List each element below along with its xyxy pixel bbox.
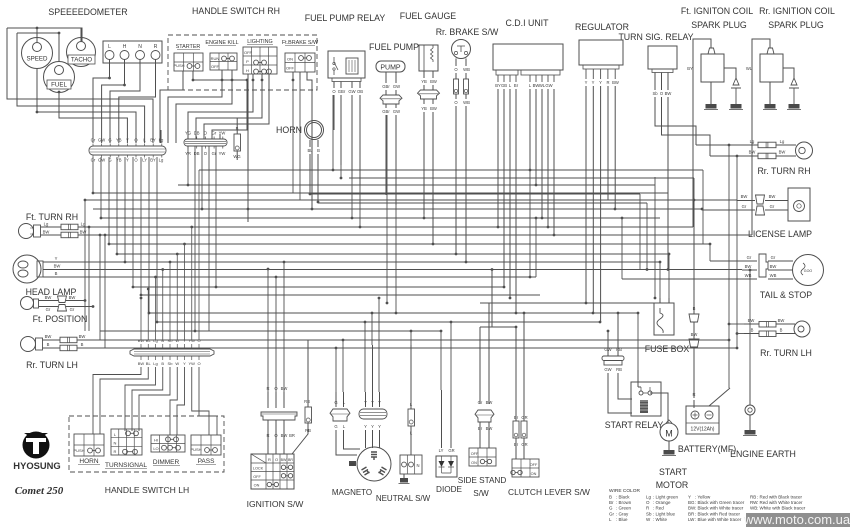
svg-text:B: B (161, 361, 164, 366)
svg-text:FUEL PUMP RELAY: FUEL PUMP RELAY (305, 13, 386, 23)
svg-text:: Yellow: : Yellow (695, 495, 711, 500)
svg-text:Y: Y (585, 80, 588, 85)
svg-text:BW: BW (769, 194, 776, 199)
svg-text:Br: Br (609, 500, 614, 505)
svg-text:N: N (114, 441, 117, 446)
svg-text:C.D.I UNIT: C.D.I UNIT (505, 18, 549, 28)
neutral switch (376, 345, 431, 503)
svg-text:YB: YB (421, 106, 427, 111)
svg-text:GB: GB (501, 83, 507, 88)
side stand switch (458, 303, 507, 498)
svg-text:R: R (266, 433, 269, 438)
svg-text:Gr: Gr (478, 400, 483, 405)
svg-text:BW: BW (430, 79, 437, 84)
svg-text:SPARK PLUG: SPARK PLUG (768, 20, 824, 30)
svg-text:FUEL GAUGE: FUEL GAUGE (400, 11, 457, 21)
svg-text:HI: HI (154, 438, 158, 443)
svg-text:YW: YW (219, 151, 226, 156)
svg-text:DIMMER: DIMMER (153, 459, 180, 466)
svg-text:B: B (751, 328, 754, 333)
svg-text:LOCK: LOCK (253, 467, 264, 471)
svg-text:Y: Y (378, 400, 381, 405)
svg-text:G: G (609, 506, 613, 511)
svg-text:PUSH: PUSH (190, 447, 201, 452)
svg-text:RB: RB (616, 367, 622, 372)
svg-text:SPEEEEDOMETER: SPEEEEDOMETER (48, 7, 127, 17)
svg-text:S/W: S/W (473, 489, 489, 498)
svg-text:START RELAY: START RELAY (605, 420, 664, 430)
svg-text:R: R (114, 449, 117, 454)
svg-text:MOTOR: MOTOR (656, 480, 689, 490)
svg-text:: Black: : Black (616, 495, 630, 500)
svg-text:Y: Y (183, 361, 186, 366)
svg-text:12V(12Ah): 12V(12Ah) (691, 427, 715, 433)
svg-text:OFF: OFF (211, 64, 220, 69)
engine earth (730, 370, 796, 459)
svg-text:Y: Y (688, 495, 691, 500)
connector ignition switch harness (261, 386, 297, 454)
connector inline B near fuse (689, 200, 699, 408)
ground engine earth (745, 430, 756, 435)
switch block STARTER (173, 44, 203, 71)
svg-text:GW: GW (98, 138, 105, 143)
wire mesh left verticals (85, 146, 216, 348)
ground start motor (664, 450, 675, 455)
lamp head lamp (13, 255, 77, 297)
svg-text:PASS: PASS (198, 458, 216, 465)
svg-text:LO: LO (153, 446, 158, 451)
svg-text:ON: ON (531, 472, 537, 476)
svg-text:BW: BW (430, 106, 437, 111)
svg-text:: Black with Red tracer: : Black with Red tracer (695, 511, 741, 516)
svg-text:BR: BR (288, 458, 293, 462)
diode block (436, 390, 463, 494)
svg-text:N: N (416, 463, 419, 468)
svg-text:O: O (646, 500, 650, 505)
svg-text:BW: BW (741, 194, 748, 199)
svg-text:Gr: Gr (747, 255, 752, 260)
svg-text:WB: WB (463, 100, 470, 105)
gauge SPEED (22, 38, 53, 69)
connector 9-pin main harness (89, 138, 166, 163)
svg-text:TURNSIGNAL: TURNSIGNAL (105, 462, 147, 469)
svg-text:Y: Y (126, 158, 129, 163)
svg-text:Comet 250: Comet 250 (15, 485, 64, 497)
svg-text:Gr: Gr (91, 138, 96, 143)
start motor (660, 420, 678, 450)
svg-text:BW: BW (54, 264, 61, 269)
svg-text:: Brown: : Brown (616, 500, 632, 505)
svg-text:LICENSE LAMP: LICENSE LAMP (748, 229, 812, 239)
svg-text:GW: GW (604, 367, 611, 372)
svg-text:W: W (175, 361, 179, 366)
svg-text:Y: Y (364, 400, 367, 405)
svg-text:SPEED: SPEED (27, 56, 49, 63)
switch block DIMMER (151, 435, 185, 466)
switch block PASS (190, 435, 221, 465)
svg-text:L: L (108, 44, 111, 50)
svg-text:BW: BW (612, 80, 619, 85)
svg-text:CLUTCH LEVER S/W: CLUTCH LEVER S/W (508, 487, 590, 497)
svg-text:Gr: Gr (742, 204, 747, 209)
svg-text:HORN: HORN (79, 458, 98, 465)
svg-text:Gr: Gr (609, 511, 615, 516)
relay K1 fuel pump relay (328, 51, 365, 185)
svg-text:ENGINE KILL: ENGINE KILL (205, 40, 238, 46)
svg-text:ON: ON (471, 461, 477, 465)
wire handle switch RH outputs (160, 70, 312, 222)
switch block TURNSIGNAL (105, 429, 147, 469)
svg-text:GBr: GBr (382, 84, 390, 89)
svg-text:R: R (268, 457, 271, 462)
switch block HORN (LH) (73, 434, 104, 465)
svg-text:Br: Br (514, 415, 519, 420)
svg-text:Gr: Gr (70, 307, 75, 312)
svg-text:WB: WB (463, 67, 470, 72)
svg-text:Lg: Lg (780, 139, 785, 144)
svg-text:B: B (693, 306, 696, 311)
svg-text:BW: BW (779, 150, 786, 155)
svg-text:B: B (81, 342, 84, 347)
wire junction dots (84, 144, 752, 350)
svg-text:YW: YW (189, 361, 196, 366)
svg-text:HANDLE SWITCH RH: HANDLE SWITCH RH (192, 6, 280, 16)
wire mesh horizontal bus (43, 145, 752, 348)
connector inline RB (292, 340, 312, 454)
ignition coil Rr (746, 39, 799, 235)
wire speedometer harness top (7, 27, 82, 62)
svg-text:Y: Y (378, 424, 381, 429)
connector magneto Y (359, 345, 387, 448)
svg-text:BR: BR (289, 433, 295, 438)
svg-text:GW: GW (393, 84, 400, 89)
svg-text:: White: : White (653, 517, 668, 522)
svg-text:FUEL PUMP: FUEL PUMP (369, 42, 419, 52)
svg-text:Lg: Lg (44, 222, 49, 227)
connector main 9-pin (130, 338, 214, 366)
svg-text:B: B (609, 495, 612, 500)
svg-text:Sb: Sb (652, 91, 658, 96)
svg-text:B: B (317, 148, 320, 153)
svg-text:STARTER: STARTER (176, 44, 201, 50)
svg-text:GW: GW (545, 83, 552, 88)
logo HYOSUNG (13, 432, 63, 498)
svg-text:START: START (659, 467, 688, 477)
svg-text:BW: BW (486, 400, 493, 405)
svg-text:BATTERY(MF): BATTERY(MF) (678, 444, 736, 454)
svg-text:BW: BW (778, 318, 785, 323)
gauge TACHO (67, 38, 96, 67)
svg-text:BW: BW (138, 361, 145, 366)
svg-text:: Light green: : Light green (653, 495, 679, 500)
svg-text:Rr. TURN LH: Rr. TURN LH (760, 348, 812, 358)
svg-text:ON: ON (254, 484, 260, 488)
svg-text:: White with Black tracer: : White with Black tracer (757, 506, 806, 511)
svg-text:Y: Y (126, 138, 129, 143)
svg-text:Lg: Lg (159, 158, 164, 163)
svg-text:BW: BW (281, 458, 287, 462)
svg-text:Rr. IGNITION COIL: Rr. IGNITION COIL (759, 6, 835, 16)
svg-text:DB: DB (194, 131, 200, 136)
svg-text:LIGHTING: LIGHTING (247, 39, 272, 45)
svg-text:: Red with White tracer: : Red with White tracer (757, 500, 803, 505)
svg-text:N: N (138, 44, 142, 50)
svg-text:HYOSUNG: HYOSUNG (13, 460, 60, 471)
svg-text:YB: YB (116, 138, 122, 143)
svg-text:BW: BW (45, 334, 52, 339)
connector magneto G/L (330, 392, 360, 455)
horn (276, 121, 323, 203)
svg-text:DIODE: DIODE (436, 485, 462, 494)
svg-text:LY: LY (439, 448, 444, 453)
fuse box (645, 298, 690, 354)
svg-text:OFF: OFF (471, 452, 479, 456)
svg-text:WIRE COLOR: WIRE COLOR (609, 488, 640, 494)
svg-text:Gr: Gr (46, 307, 51, 312)
watermark moto.com.ua (743, 512, 850, 527)
svg-text:Y: Y (599, 80, 602, 85)
svg-text:BW: BW (691, 332, 698, 337)
svg-text:BW: BW (745, 264, 752, 269)
svg-text:O: O (275, 457, 278, 462)
clutch lever switch (508, 313, 590, 497)
svg-text:G: G (334, 400, 337, 405)
CDI unit (493, 44, 563, 313)
svg-text:RB: RB (304, 399, 310, 404)
svg-text:FUEL: FUEL (51, 82, 67, 89)
start relay (605, 370, 668, 430)
svg-text:BW: BW (69, 295, 76, 300)
switch block ENGINE KILL (205, 40, 238, 70)
wire mesh bottom feeders (268, 262, 750, 392)
wire mesh right verticals (530, 145, 737, 388)
svg-text:: Black with White tracer: : Black with White tracer (695, 506, 744, 511)
connector 5-pin harness (184, 131, 227, 157)
svg-text:MAGNETO: MAGNETO (332, 488, 372, 497)
svg-text:WB: WB (770, 273, 777, 278)
svg-text:PUMP: PUMP (380, 65, 401, 72)
svg-text:Ft. POSITION: Ft. POSITION (33, 314, 88, 324)
svg-text:BY: BY (687, 66, 693, 71)
svg-text:BW: BW (45, 295, 52, 300)
svg-text:RUN: RUN (211, 56, 220, 61)
ignition switch table (247, 454, 305, 509)
svg-text:Y: Y (364, 424, 367, 429)
svg-text:Br: Br (514, 83, 519, 88)
svg-text:BW: BW (749, 150, 756, 155)
svg-text:R: R (606, 80, 609, 85)
svg-text:BW: BW (770, 264, 777, 269)
svg-text:NEUTRAL S/W: NEUTRAL S/W (376, 494, 431, 503)
svg-text:BR: BR (688, 511, 695, 516)
battery (678, 388, 736, 454)
svg-text:SIDE STAND: SIDE STAND (458, 476, 507, 485)
svg-text:BY: BY (150, 138, 156, 143)
svg-text:Lg: Lg (153, 361, 157, 366)
svg-text:BL: BL (146, 361, 152, 366)
svg-text:H: H (246, 68, 249, 73)
svg-text:HANDLE SWITCH LH: HANDLE SWITCH LH (105, 485, 190, 495)
switch Rr brake S/W (452, 40, 471, 263)
wire main connector risers (141, 170, 199, 340)
svg-text:: Green: : Green (616, 506, 632, 511)
svg-text:KB: KB (350, 463, 354, 467)
license lamp (737, 188, 812, 239)
svg-text:OFF: OFF (244, 50, 253, 55)
svg-text:Lg: Lg (159, 138, 164, 143)
svg-text:GR: GR (448, 448, 454, 453)
svg-text:WL: WL (746, 66, 753, 71)
svg-text:BW: BW (281, 433, 288, 438)
svg-text:REGULATOR: REGULATOR (575, 22, 629, 32)
ground neutral switch (400, 478, 408, 483)
svg-text:P: P (246, 59, 249, 64)
svg-text:Ft. TURN RH: Ft. TURN RH (26, 212, 78, 222)
svg-text:G: G (334, 424, 337, 429)
svg-text:GW: GW (98, 158, 105, 163)
svg-text:R: R (692, 392, 695, 397)
handle switch LH dashed box (69, 416, 224, 472)
svg-text:ON: ON (287, 57, 293, 62)
ignition coil Ft (687, 39, 741, 227)
svg-text:B: B (780, 328, 783, 333)
svg-text:TACHO: TACHO (71, 57, 92, 64)
wire mesh center verticals (248, 74, 466, 313)
svg-text:LY: LY (142, 158, 147, 163)
svg-text:BG: BG (688, 500, 695, 505)
svg-text:PUSH: PUSH (173, 63, 184, 68)
svg-text:Lg: Lg (646, 495, 652, 500)
svg-text:TURN SIG. RELAY: TURN SIG. RELAY (618, 32, 693, 42)
ground Rr spark plug (789, 104, 800, 109)
svg-text:: Blue: : Blue (616, 517, 628, 522)
svg-text:ENGINE EARTH: ENGINE EARTH (730, 449, 796, 459)
svg-text:HORN: HORN (276, 125, 302, 135)
svg-text:M: M (665, 429, 673, 439)
lamp Rr turn LH (left) (21, 334, 101, 370)
svg-text:GBr: GBr (382, 109, 390, 114)
svg-text:OB: OB (357, 89, 363, 94)
lamp Ft turn RH (19, 212, 106, 239)
svg-text:H: H (123, 44, 127, 50)
svg-text:BW: BW (665, 91, 672, 96)
lamp Rr turn RH (right) (745, 139, 813, 176)
wire side stand feed jog (480, 268, 517, 390)
svg-text:PUSH: PUSH (73, 448, 84, 453)
svg-text:Y: Y (55, 256, 58, 261)
fuel gauge sender (418, 45, 440, 244)
svg-text:GR: GR (521, 415, 527, 420)
svg-text:B: B (47, 342, 50, 347)
svg-text:Sb: Sb (646, 511, 652, 516)
svg-text:R: R (154, 44, 158, 50)
legend wire color (609, 488, 806, 522)
svg-text:GOO: GOO (804, 269, 813, 273)
svg-text:Gr: Gr (770, 204, 775, 209)
svg-text:: Gray: : Gray (616, 511, 629, 516)
ground Rr coil primary (765, 104, 776, 109)
switch block Ft BRAKE S/W (282, 40, 319, 72)
svg-text:Lg: Lg (750, 139, 755, 144)
svg-text:Y: Y (371, 400, 374, 405)
magneto (332, 447, 391, 497)
svg-text:O: O (197, 361, 200, 366)
svg-text:BW: BW (748, 318, 755, 323)
svg-text:OFF: OFF (530, 463, 538, 467)
svg-text:Ft. IGNITON COIL: Ft. IGNITON COIL (681, 6, 753, 16)
turn signal relay (648, 46, 710, 270)
svg-text:: Red with Black tracer: : Red with Black tracer (757, 495, 803, 500)
svg-text:YB: YB (421, 79, 427, 84)
svg-text:Rr. BRAKE S/W: Rr. BRAKE S/W (436, 27, 499, 37)
lamp Ft position (21, 295, 94, 324)
svg-text:: Red: : Red (653, 506, 664, 511)
connector speedometer L/H/N/R (103, 41, 162, 63)
svg-text:Ft.BRAKE S/W: Ft.BRAKE S/W (282, 40, 319, 46)
svg-text:: Orange: : Orange (653, 500, 671, 505)
wire speedometer cluster outputs (7, 28, 161, 143)
svg-text:www.moto.com.ua: www.moto.com.ua (743, 512, 850, 527)
ground Ft spark plug (731, 104, 742, 109)
svg-text:Rr. TURN RH: Rr. TURN RH (757, 166, 810, 176)
handle switch RH dashed box (168, 35, 317, 90)
gauge FUEL (44, 62, 75, 93)
svg-text:RB: RB (750, 495, 756, 500)
fuel pump (376, 61, 405, 205)
svg-text:Y: Y (592, 80, 595, 85)
svg-text:BW: BW (79, 334, 86, 339)
svg-text:: Black with Green tracer: : Black with Green tracer (695, 500, 745, 505)
svg-text:TAIL & STOP: TAIL & STOP (760, 290, 812, 300)
svg-text:GW: GW (348, 89, 355, 94)
svg-text:BY: BY (150, 158, 156, 163)
svg-text:SPARK PLUG: SPARK PLUG (691, 20, 747, 30)
connector GW/RB pair (602, 313, 632, 413)
svg-text:: Light blue: : Light blue (653, 511, 676, 516)
svg-text:Sb: Sb (168, 361, 174, 366)
wire main connector fan to handle switch LH (93, 367, 217, 435)
svg-text:IGNITION S/W: IGNITION S/W (247, 499, 305, 509)
svg-text:Gr: Gr (771, 255, 776, 260)
svg-text:OFF: OFF (286, 66, 295, 71)
connector inline B/WG (233, 118, 240, 160)
switch block LIGHTING (243, 39, 277, 74)
svg-text:OFF: OFF (253, 475, 261, 479)
ground Ft coil primary (706, 104, 717, 109)
lamp Rr turn LH (right) (744, 318, 812, 358)
svg-text:G: G (108, 138, 111, 143)
svg-text:WB: WB (745, 273, 752, 278)
lamp tail and stop (742, 254, 824, 300)
svg-text:GBr: GBr (338, 89, 346, 94)
regulator (579, 40, 623, 322)
svg-text:Rr. TURN LH: Rr. TURN LH (26, 360, 78, 370)
svg-text:B: B (55, 271, 58, 276)
svg-text:GW: GW (393, 109, 400, 114)
svg-text:FUSE BOX: FUSE BOX (645, 344, 690, 354)
svg-text:BW: BW (43, 230, 50, 235)
svg-text:Y: Y (371, 424, 374, 429)
svg-text:: Blue with White tracer: : Blue with White tracer (695, 517, 742, 522)
